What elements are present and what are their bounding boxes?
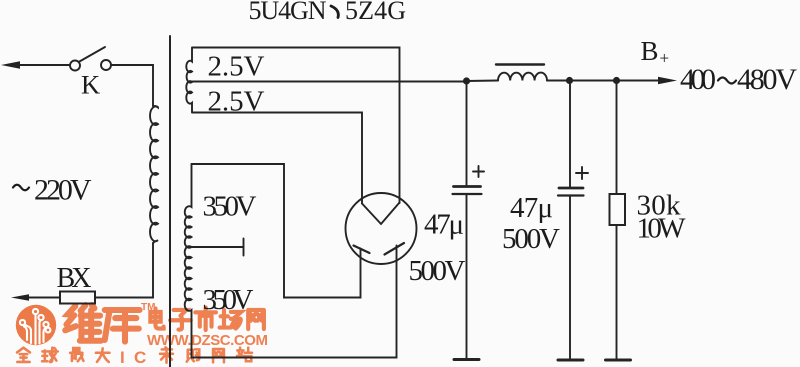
switch K — [70, 47, 111, 71]
capacitor C2 plates — [559, 187, 583, 190]
svg-text:400: 400 — [680, 63, 716, 96]
capacitor C2 lower lead — [569, 196, 571, 360]
transformer core — [169, 36, 171, 367]
tube anode right — [385, 243, 405, 255]
wire filament top to tube — [193, 48, 400, 204]
capacitor C1 polarity + — [473, 166, 484, 177]
watermark char wang — [248, 310, 264, 329]
watermark char wei — [65, 305, 101, 341]
resistor R1 lower lead — [616, 225, 618, 359]
transformer primary winding — [150, 106, 158, 244]
choke winding — [498, 73, 547, 81]
HV center tap — [192, 239, 244, 256]
filament winding 2.5V upper — [186, 48, 192, 83]
tube filament V — [362, 203, 400, 225]
label 400~480V — [680, 63, 797, 96]
watermark char zhan — [237, 348, 252, 362]
junction node cap2 — [566, 77, 573, 84]
wire — [25, 297, 60, 299]
svg-text:K: K — [81, 70, 100, 100]
svg-text:220V: 220V — [34, 174, 92, 207]
wire — [16, 64, 69, 66]
label B+ — [641, 36, 670, 68]
svg-text:350V: 350V — [203, 284, 254, 316]
svg-text:500V: 500V — [409, 255, 466, 287]
watermark char ku — [105, 310, 140, 342]
HV winding 350V upper — [185, 164, 192, 248]
filament winding 2.5V lower — [186, 81, 192, 112]
svg-text:I: I — [120, 348, 125, 367]
B+ rail — [467, 80, 663, 83]
svg-text:350V: 350V — [203, 191, 257, 223]
wire HV top to left anode — [192, 164, 361, 298]
watermark group — [16, 302, 268, 367]
capacitor C1 ground bar — [454, 358, 479, 361]
svg-text:5Z4G: 5Z4G — [345, 0, 406, 25]
resistor R1 ground bar — [606, 359, 631, 362]
AC input arrow top — [1, 61, 20, 68]
title 5U4GN,5Z4G — [249, 0, 407, 25]
fuse BX — [60, 292, 95, 304]
choke core — [496, 63, 544, 65]
watermark char zui — [70, 348, 83, 361]
watermark char zi — [170, 310, 191, 330]
watermark char quan — [17, 348, 30, 362]
resistor R1 lead — [616, 84, 618, 194]
watermark char wang2 — [213, 349, 224, 362]
watermark logo circle — [16, 305, 56, 345]
tube anode left — [354, 246, 370, 254]
watermark char shi — [195, 307, 216, 330]
svg-text:C: C — [134, 348, 146, 367]
svg-text:5U4GN: 5U4GN — [249, 0, 327, 25]
wire — [95, 243, 153, 298]
svg-text:47μ: 47μ — [424, 209, 464, 241]
label ~220V — [13, 174, 92, 207]
capacitor C1 lead — [466, 84, 468, 186]
wire HV bottom to right anode — [192, 246, 397, 358]
watermark char qiu — [42, 348, 58, 362]
watermark char cai — [160, 347, 173, 362]
wire filament mid to B+ rail — [193, 81, 467, 83]
svg-text:500V: 500V — [502, 223, 560, 255]
capacitor C2 ground bar — [558, 359, 583, 362]
junction node resistor — [613, 77, 620, 84]
svg-text:TM: TM — [141, 302, 155, 313]
output arrow — [658, 77, 677, 84]
capacitor C2 polarity + — [576, 167, 588, 179]
svg-text:480V: 480V — [737, 63, 797, 96]
rectifier tube 5U4G envelope — [346, 193, 417, 264]
capacitor C1 lower lead — [466, 194, 468, 359]
svg-text:47μ: 47μ — [510, 192, 553, 224]
svg-text:+: + — [660, 49, 670, 68]
AC input arrow bottom — [11, 294, 29, 301]
svg-text:10W: 10W — [637, 213, 687, 245]
HV winding 350V lower — [185, 246, 192, 357]
svg-text:B: B — [641, 36, 659, 66]
resistor R1 body — [610, 194, 626, 225]
svg-text:2.5V: 2.5V — [208, 51, 265, 83]
capacitor C2 lead — [569, 84, 571, 188]
wire filament bottom to tube — [193, 113, 363, 204]
capacitor C1 plates — [454, 185, 481, 188]
watermark char da — [96, 348, 110, 362]
watermark char gou — [187, 349, 200, 361]
watermark char chang — [220, 310, 242, 329]
wire — [111, 65, 153, 106]
svg-text:BX: BX — [57, 263, 92, 294]
junction node cap1 — [463, 77, 470, 84]
watermark char dian — [150, 308, 163, 328]
